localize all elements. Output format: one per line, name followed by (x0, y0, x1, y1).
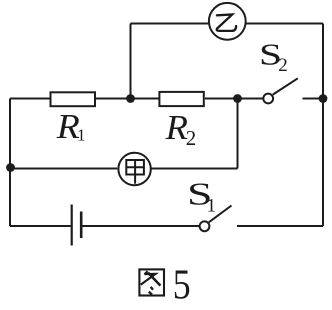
ammeter jia circle (118, 153, 150, 185)
resistor R2 (159, 92, 203, 106)
battery long plate (71, 205, 73, 246)
switch S2 lever (273, 78, 298, 94)
svg-text:R: R (165, 108, 188, 147)
svg-text:2: 2 (186, 126, 197, 150)
wire R1 to R2 (96, 98, 159, 100)
wire meter jia to left (10, 168, 117, 170)
wire right vertical (322, 24, 324, 227)
wire to meter jia right side (152, 168, 238, 170)
node junction left (6, 163, 15, 172)
wire branch down from node (237, 99, 239, 169)
switch S1 pivot circle (200, 221, 210, 231)
node junction before S2 (233, 94, 242, 103)
wire top horizontal left (131, 23, 209, 25)
svg-text:1: 1 (77, 126, 86, 145)
wire top row left (10, 98, 50, 100)
wire S1 to right corner (237, 225, 323, 227)
wire branch up to meter (130, 24, 132, 99)
wire left vertical (9, 99, 11, 227)
wire S2 to right (303, 98, 324, 100)
ammeter U-yi circle (209, 3, 246, 40)
glyph tu (caption) (139, 269, 164, 295)
switch S2 pivot circle (263, 94, 273, 104)
glyph jia inside lower meter (126, 160, 144, 184)
wire top horizontal right (247, 23, 324, 25)
wire bottom left (10, 225, 71, 227)
switch S1 lever (209, 206, 232, 223)
node junction at R1-R2 (126, 94, 135, 103)
resistor R1 (51, 92, 96, 106)
svg-text:2: 2 (278, 55, 288, 76)
svg-text:5: 5 (173, 263, 191, 306)
battery short plate (80, 212, 83, 239)
wire R2 to switch S2 (205, 98, 263, 100)
glyph yi inside top meter (217, 15, 236, 31)
wire battery to switch S1 (82, 225, 199, 227)
node junction right (319, 94, 328, 103)
svg-text:1: 1 (207, 196, 217, 217)
